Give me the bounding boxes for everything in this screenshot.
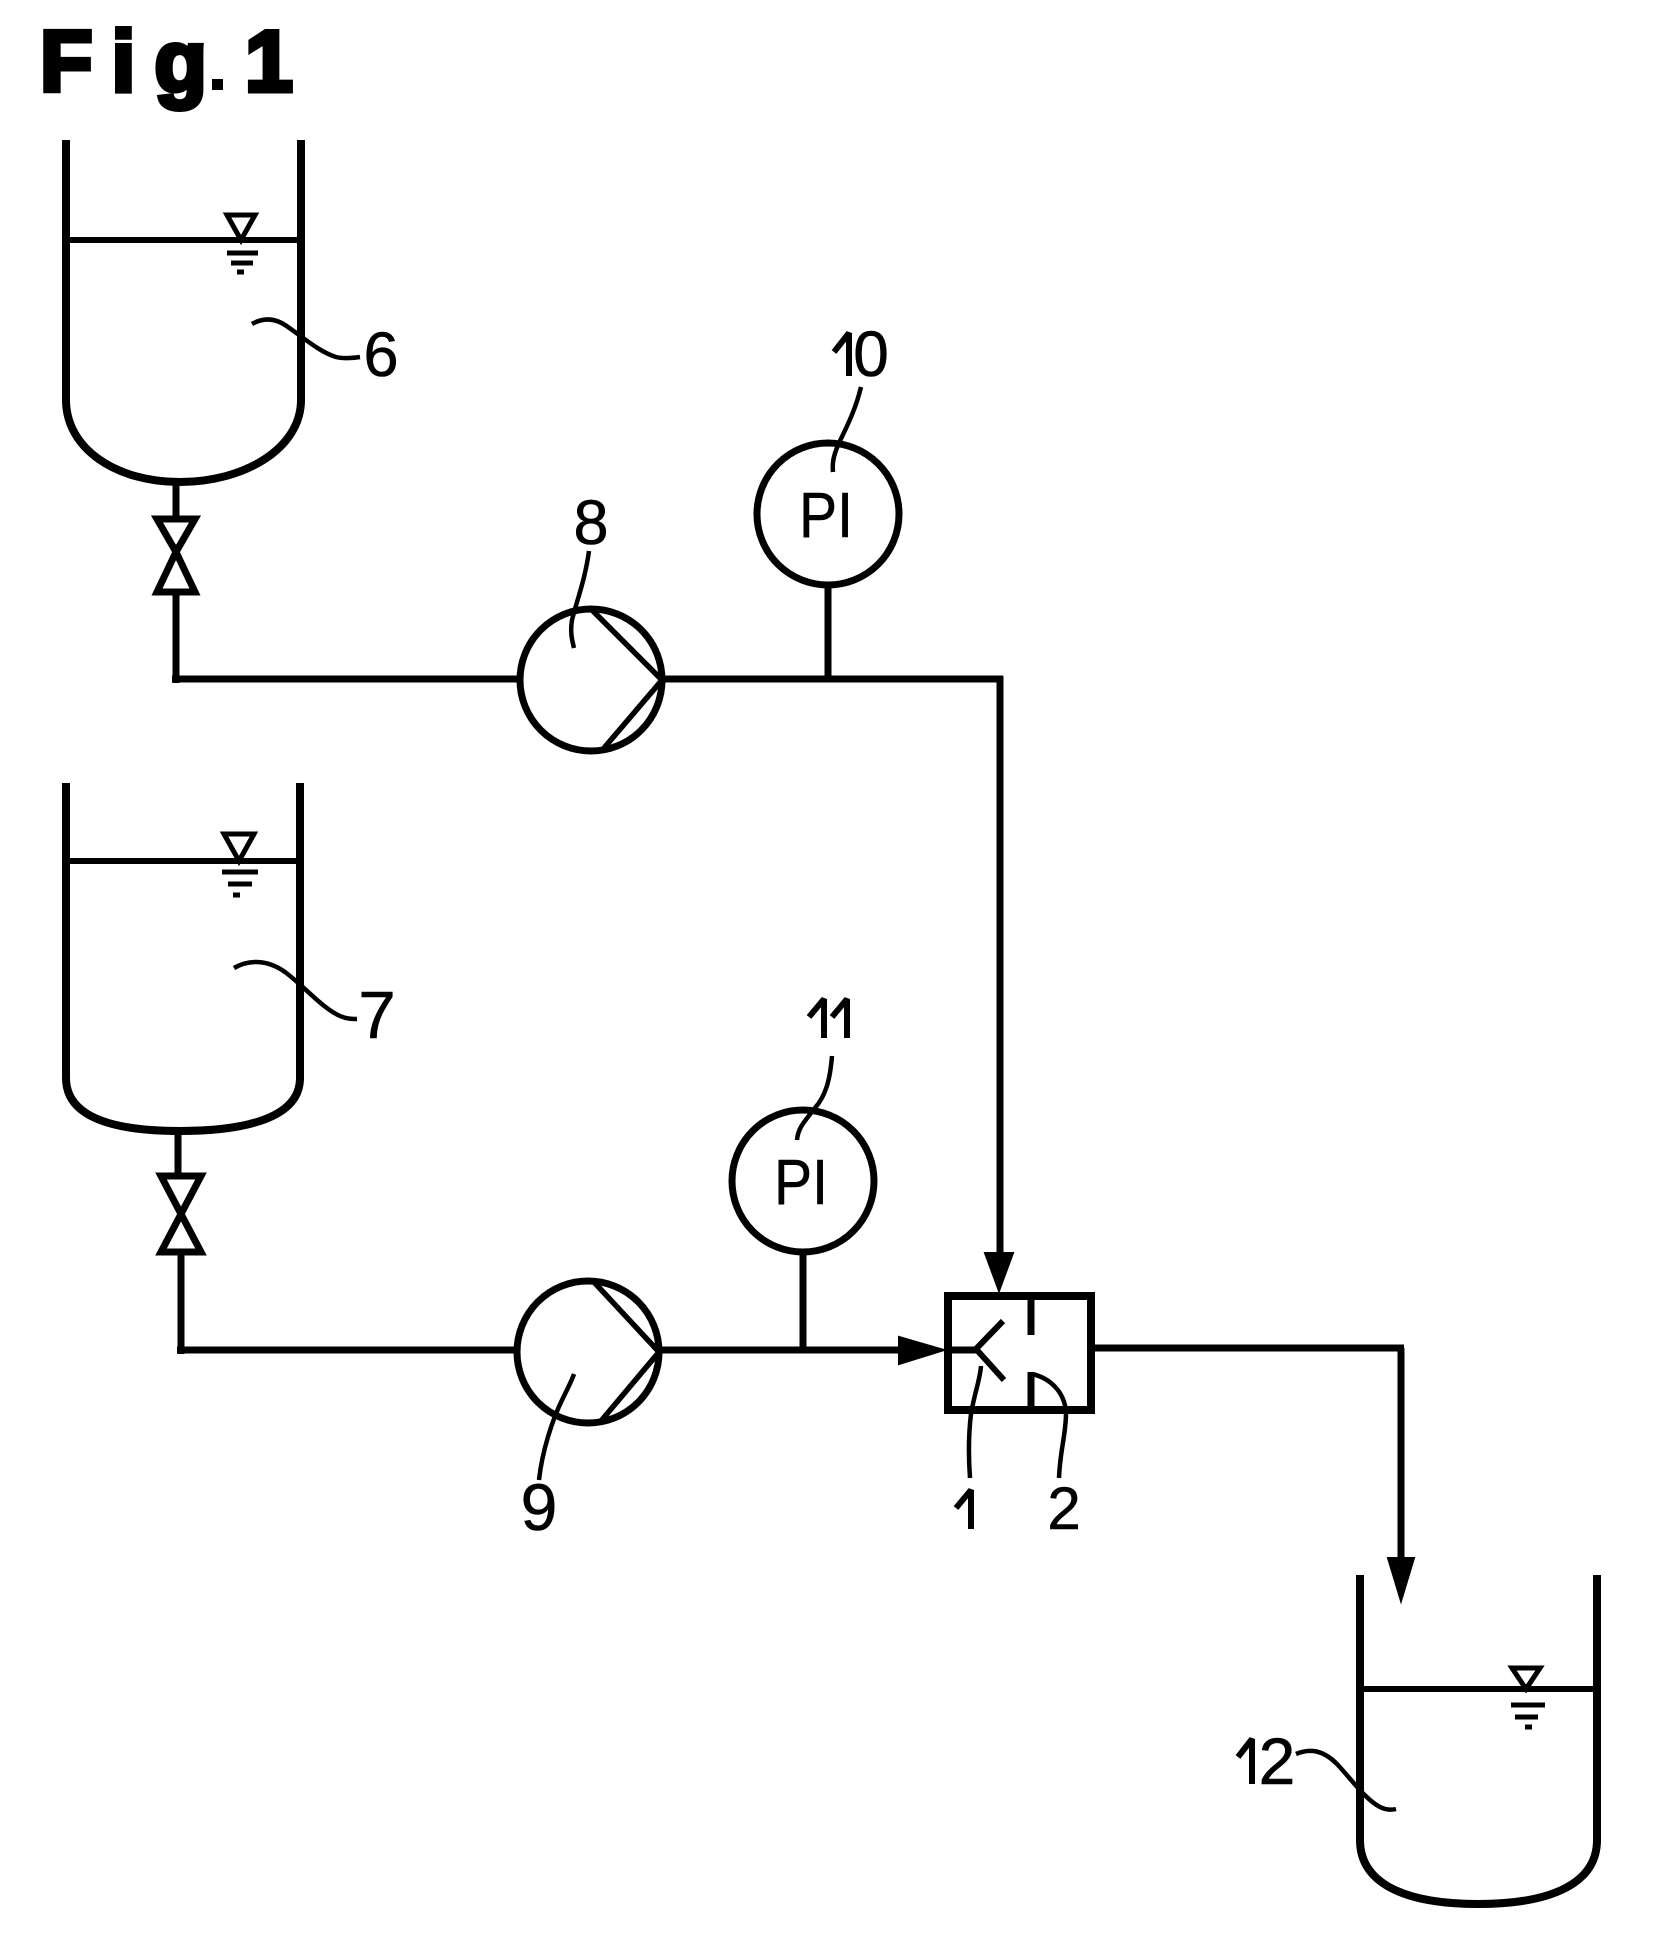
svg-text:Fig: Fig — [40, 14, 226, 110]
svg-text:9: 9 — [521, 1470, 558, 1544]
svg-text:1: 1 — [245, 14, 293, 110]
svg-text:6: 6 — [363, 320, 398, 390]
svg-text:8: 8 — [573, 488, 608, 558]
svg-text:PI: PI — [774, 1146, 828, 1218]
svg-text:0: 0 — [853, 318, 889, 390]
svg-text:7: 7 — [358, 978, 395, 1053]
svg-text:2: 2 — [1047, 1475, 1080, 1542]
svg-text:2: 2 — [1259, 1724, 1296, 1798]
svg-text:PI: PI — [799, 479, 853, 551]
